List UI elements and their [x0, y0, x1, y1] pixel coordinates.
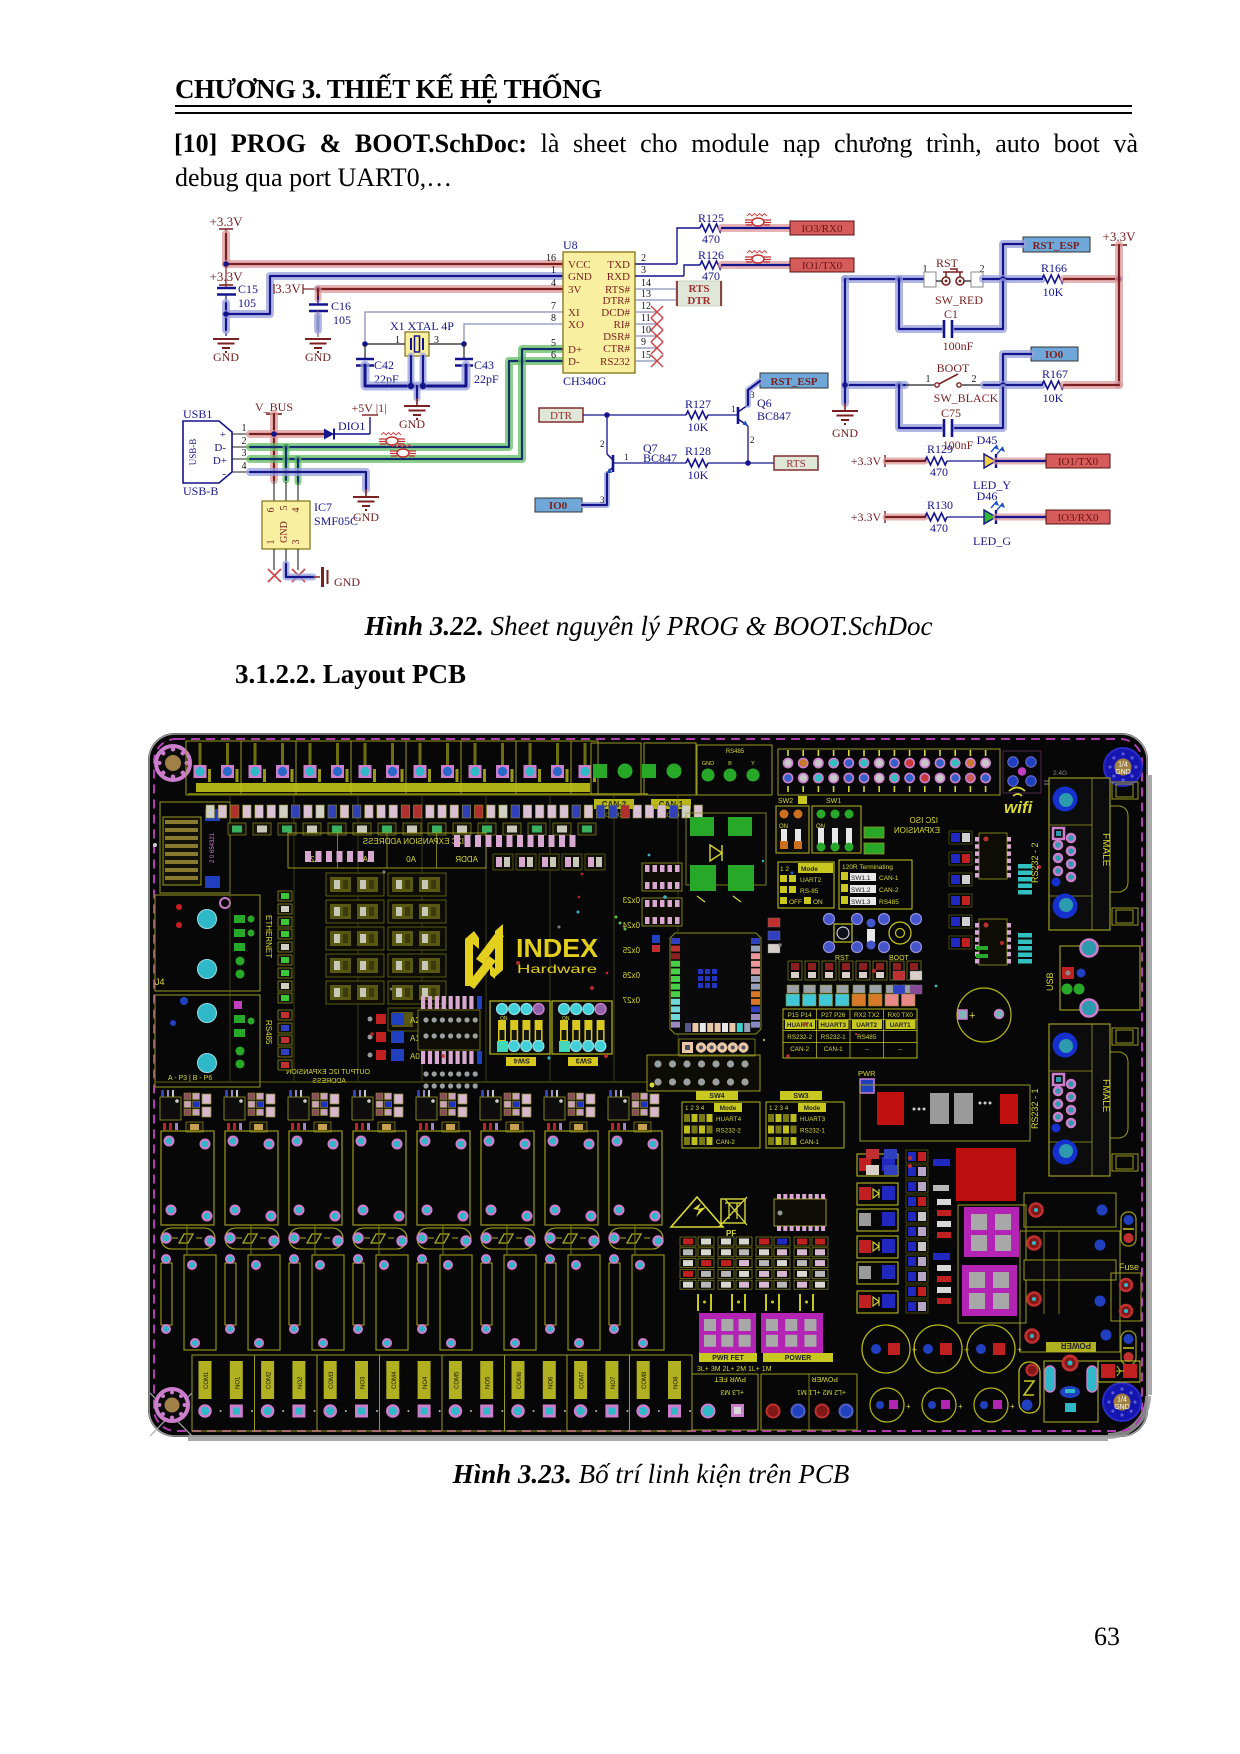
svg-text:RS485: RS485 — [726, 749, 745, 755]
svg-text:RS232 - 2: RS232 - 2 — [1030, 842, 1040, 883]
svg-text:USB-B: USB-B — [183, 484, 218, 498]
ground (switch rail) — [832, 403, 858, 440]
svg-text:LED_G: LED_G — [973, 534, 1011, 548]
no-ERC X (IC7 pin 3) — [292, 569, 305, 582]
svg-text:RTS: RTS — [786, 458, 806, 470]
wire LED to tag IO1/TX0 — [996, 458, 1046, 465]
wire VCC net vertical from +3.3V — [222, 234, 230, 264]
svg-text:7: 7 — [551, 301, 556, 312]
svg-text:TXD: TXD — [607, 259, 630, 271]
node crystal-left junction — [362, 341, 368, 347]
wire +3.3V to R130 — [886, 514, 925, 521]
svg-text:4: 4 — [242, 461, 247, 472]
svg-text:D+: D+ — [568, 344, 582, 356]
svg-text:GND: GND — [832, 426, 858, 440]
svg-text:RX2 TX2: RX2 TX2 — [854, 1012, 880, 1019]
svg-text:1 2: 1 2 — [780, 866, 789, 873]
svg-text:SW1.1: SW1.1 — [851, 875, 871, 882]
svg-text:NO1: NO1 — [235, 1376, 241, 1389]
svg-text:INDEX: INDEX — [516, 933, 599, 963]
svg-text:NO6: NO6 — [548, 1376, 554, 1389]
svg-text:Mode: Mode — [804, 1105, 821, 1112]
power port +3.3V (top left) — [210, 214, 244, 235]
svg-text:UART1: UART1 — [890, 1022, 911, 1029]
ground (crystal) — [399, 398, 430, 431]
svg-text:A0: A0 — [410, 1052, 420, 1061]
wire IC7 GND pin to ground bar — [286, 564, 313, 577]
svg-text:Mode: Mode — [801, 866, 818, 873]
svg-text:+: + — [220, 429, 226, 441]
svg-text:HUART3: HUART3 — [820, 1022, 846, 1029]
svg-text:P27 P26: P27 P26 — [821, 1012, 846, 1019]
svg-text:2: 2 — [641, 253, 646, 264]
wire DTR to R127 — [583, 414, 686, 416]
wire switches ground rail — [841, 279, 849, 403]
svg-text:1: 1 — [926, 374, 931, 385]
svg-text:1/4: 1/4 — [1118, 762, 1128, 769]
svg-text:FMALE: FMALE — [1100, 833, 1111, 867]
node crystal-right junction — [461, 341, 467, 347]
wire C15 to ground / GND net — [225, 294, 227, 336]
svg-text:UART2: UART2 — [856, 1022, 877, 1029]
node crystal bus junctions — [408, 383, 426, 389]
svg-text:RXD: RXD — [607, 271, 630, 283]
ground bar (IC7) — [313, 567, 360, 589]
svg-text:RST_ESP: RST_ESP — [1032, 240, 1079, 252]
svg-text:J4: J4 — [155, 977, 165, 987]
svg-text:CAN-2: CAN-2 — [879, 887, 899, 894]
svg-text:CH340G: CH340G — [563, 374, 607, 388]
svg-text:SW4: SW4 — [513, 1057, 530, 1066]
svg-text:FMALE: FMALE — [1100, 1079, 1111, 1113]
pushbutton RST SW_RED — [923, 256, 985, 307]
svg-text:COM4: COM4 — [392, 1371, 398, 1389]
power port +3.3V (D46 row) — [851, 510, 885, 524]
IC7 bottom pin wires — [274, 549, 298, 571]
svg-text:COM6: COM6 — [517, 1371, 523, 1389]
svg-text:5: 5 — [551, 338, 556, 349]
svg-text:HUART3: HUART3 — [800, 1116, 826, 1123]
svg-text:13: 13 — [641, 289, 651, 300]
svg-text:C42: C42 — [374, 358, 394, 372]
node BOOT/R167 junction — [1000, 382, 1006, 388]
port RST_ESP (top right) — [1023, 237, 1090, 252]
svg-text:1: 1 — [266, 540, 277, 545]
svg-text:3.3V: 3.3V — [275, 281, 301, 296]
svg-text:DIO1: DIO1 — [338, 419, 365, 433]
TVS array IC7 SMF05C — [262, 500, 358, 549]
wire Q6 collector to RST_ESP — [748, 381, 760, 405]
svg-text:3: 3 — [600, 495, 605, 505]
port IO1/TX0 — [1046, 454, 1110, 468]
svg-text:RST: RST — [936, 256, 959, 270]
wire DIO1 to +5V — [334, 417, 370, 434]
svg-text:RS232: RS232 — [600, 356, 630, 368]
LED D46 LED_G — [947, 489, 1011, 548]
wire R125 to tag IO3/RX0 — [722, 224, 790, 232]
svg-text:1 2 3 4: 1 2 3 4 — [685, 1105, 705, 1112]
capacitor C42 22pF — [356, 344, 399, 386]
svg-text:DTR#: DTR# — [603, 295, 631, 307]
svg-text:R166: R166 — [1041, 261, 1067, 275]
svg-text:-: - — [222, 468, 226, 480]
svg-text:VCC: VCC — [568, 259, 591, 271]
svg-text:COM3: COM3 — [329, 1371, 335, 1389]
wire stubs to IC7 — [274, 480, 298, 501]
svg-text:I2C EXPANSION ADDRESS: I2C EXPANSION ADDRESS — [363, 837, 464, 846]
ground (C15) — [213, 339, 239, 364]
wire XO net U8 pin 8 to crystal — [464, 324, 563, 344]
svg-text:0x26: 0x26 — [622, 971, 640, 980]
svg-text:0x27: 0x27 — [622, 996, 640, 1005]
svg-text:GND: GND — [1115, 769, 1131, 776]
svg-text:D45: D45 — [977, 433, 998, 447]
power port V_BUS — [255, 400, 293, 414]
wire RXD to R126 — [635, 265, 700, 276]
svg-text:1: 1 — [731, 404, 736, 414]
svg-text:P15 P14: P15 P14 — [788, 1012, 813, 1019]
node Q6 emitter / R128 junction — [745, 460, 751, 466]
node C1 branch junction (left) — [896, 276, 902, 282]
wire RST row left (to GND rail) — [845, 275, 925, 283]
svg-text:IC7: IC7 — [314, 500, 332, 514]
wire GND net: C15 to U8 pin 1 — [226, 276, 563, 314]
svg-text:NO8: NO8 — [674, 1376, 680, 1389]
wire V_BUS vertical — [270, 414, 278, 480]
svg-text:SW_BLACK: SW_BLACK — [934, 391, 999, 405]
svg-text:D+: D+ — [213, 455, 227, 467]
wire D+ net USB pin3 to U8 pin 5 — [250, 349, 563, 459]
resistor R125 470 — [698, 211, 724, 246]
svg-text:14: 14 — [641, 278, 651, 289]
svg-text:CAN-1: CAN-1 — [824, 1046, 843, 1053]
svg-text:IO3/RX0: IO3/RX0 — [802, 223, 843, 235]
svg-text:+: + — [906, 1402, 911, 1411]
svg-text:C75: C75 — [941, 406, 961, 420]
wire BOOT switch to R167 node — [984, 381, 1042, 389]
svg-text:Hardware: Hardware — [517, 962, 597, 976]
resistor R167 10K — [1042, 367, 1068, 405]
capacitor C43 22pF — [455, 344, 499, 386]
crystal X1 XTAL-4P — [390, 319, 454, 356]
ferrite no-ERC (R125 row) — [745, 214, 771, 227]
svg-text:4: 4 — [551, 278, 556, 289]
svg-text:USB: USB — [1045, 972, 1055, 991]
svg-text:C15: C15 — [238, 282, 258, 296]
svg-text:ADDR: ADDR — [455, 855, 478, 864]
svg-text:10K: 10K — [1043, 391, 1064, 405]
svg-text:10: 10 — [641, 325, 651, 336]
svg-text:EXPANSION: EXPANSION — [894, 826, 940, 835]
svg-text:105: 105 — [238, 296, 256, 310]
svg-text:SW1.3: SW1.3 — [851, 899, 871, 906]
svg-text:3: 3 — [242, 448, 247, 459]
svg-text:CAN-1: CAN-1 — [879, 875, 899, 882]
svg-text:0x23: 0x23 — [622, 896, 640, 905]
svg-text:IO1/TX0: IO1/TX0 — [1058, 456, 1099, 468]
power port 3.3V (at C16) — [274, 281, 318, 296]
resistor R130 470 — [925, 498, 953, 535]
transistor Q7 BC847 — [600, 415, 677, 505]
wire C16 to ground — [317, 311, 319, 337]
ferrite no-ERC (R126 row) — [745, 251, 771, 264]
svg-text:RI#: RI# — [614, 319, 631, 331]
svg-text:10K: 10K — [688, 468, 709, 482]
ferrite no-ERC marks (USB data lines) — [379, 433, 416, 458]
LED D45 LED_Y — [947, 433, 1011, 492]
svg-text:SW1: SW1 — [826, 798, 841, 805]
wire RST_ESP to RST switch — [1003, 244, 1023, 279]
svg-text:RS232-1: RS232-1 — [800, 1128, 825, 1135]
svg-text:IO1/TX0: IO1/TX0 — [802, 260, 843, 272]
svg-text:3: 3 — [291, 540, 302, 545]
wire IO0 to BOOT switch — [1003, 354, 1031, 385]
node C75 branch junction — [896, 382, 902, 388]
svg-text:SW1.2: SW1.2 — [851, 887, 871, 894]
svg-text:D-: D- — [568, 356, 580, 368]
svg-text:RST_ESP: RST_ESP — [770, 376, 817, 388]
svg-text:I2C ISO: I2C ISO — [910, 816, 938, 825]
svg-text:+5V |1|: +5V |1| — [351, 401, 386, 415]
node RST/R166 junction — [1000, 276, 1006, 282]
svg-text:R125: R125 — [698, 211, 724, 225]
svg-text:+L3 M3: +L3 M3 — [720, 1388, 744, 1395]
resistor R126 470 — [698, 248, 724, 283]
wire +3.3V to R129 — [886, 458, 925, 465]
port DTR (to Q6 base) — [539, 408, 583, 422]
svg-text:2.4G: 2.4G — [1053, 770, 1067, 777]
svg-text:SW3: SW3 — [793, 1093, 808, 1100]
svg-text:6: 6 — [551, 350, 556, 361]
svg-text:6: 6 — [266, 508, 277, 513]
svg-text:wifi: wifi — [1004, 798, 1034, 817]
svg-text:10K: 10K — [688, 420, 709, 434]
svg-text:C1: C1 — [944, 307, 958, 321]
svg-text:GND: GND — [568, 271, 592, 283]
svg-text:GND: GND — [702, 761, 714, 767]
U8 unused right pin stubs with no-ERC X — [635, 306, 663, 367]
svg-text:U8: U8 — [563, 238, 578, 252]
wire R128 to RTS node — [708, 462, 748, 464]
svg-text:R167: R167 — [1042, 367, 1068, 381]
svg-text:Fuse: Fuse — [1119, 1262, 1139, 1272]
wire TXD to R125 — [635, 228, 700, 264]
svg-text:+: + — [1017, 1345, 1022, 1355]
svg-text:CAN-2: CAN-2 — [716, 1139, 735, 1146]
svg-text:HUART4: HUART4 — [716, 1116, 742, 1123]
svg-text:NO2: NO2 — [298, 1376, 304, 1389]
svg-text:8: 8 — [551, 313, 556, 324]
svg-text:RS232 - 1: RS232 - 1 — [1030, 1088, 1040, 1129]
connector USB1 USB-B — [183, 407, 250, 498]
svg-text:XI: XI — [568, 307, 580, 319]
svg-text:D46: D46 — [977, 489, 998, 503]
svg-text:470: 470 — [930, 465, 948, 479]
svg-text:2: 2 — [750, 435, 755, 445]
svg-text:NO5: NO5 — [486, 1376, 492, 1389]
svg-text:100nF: 100nF — [943, 339, 974, 353]
svg-text:1: 1 — [624, 452, 629, 462]
svg-text:DTR: DTR — [550, 410, 573, 422]
svg-text:RS232-2: RS232-2 — [787, 1034, 812, 1041]
svg-text:HUART4: HUART4 — [787, 1022, 813, 1029]
svg-text:12: 12 — [641, 301, 651, 312]
svg-text:GND: GND — [1114, 1404, 1130, 1411]
svg-text:CTR#: CTR# — [603, 343, 630, 355]
svg-text:USB-B: USB-B — [188, 439, 198, 466]
svg-text:PWR: PWR — [858, 1069, 876, 1078]
capacitor C16 105 — [309, 296, 351, 327]
svg-text:SW2: SW2 — [778, 798, 793, 805]
svg-text:+3.3V: +3.3V — [851, 510, 882, 524]
svg-text:GND: GND — [213, 350, 239, 364]
svg-text:RS232-2: RS232-2 — [716, 1128, 741, 1135]
svg-text:NO4: NO4 — [423, 1376, 429, 1389]
svg-text:IO0: IO0 — [1045, 349, 1064, 361]
power port +5V — [351, 401, 386, 415]
svg-text:POWER: POWER — [812, 1375, 838, 1382]
svg-text:COM5: COM5 — [454, 1371, 460, 1389]
wire R166 to +3.3V rail — [1064, 275, 1119, 283]
power port +3.3V (D45 row) — [851, 454, 885, 468]
svg-text:ETHERNET: ETHERNET — [264, 915, 273, 958]
svg-text:IO3/RX0: IO3/RX0 — [1058, 512, 1099, 524]
svg-text:BC847: BC847 — [757, 409, 791, 423]
resistor R129 470 — [925, 442, 953, 479]
capacitor C15 105 — [217, 282, 258, 310]
svg-text:+L2 M2 +L1 M1: +L2 M2 +L1 M1 — [797, 1388, 846, 1395]
wire USB pin4 to ground — [250, 472, 366, 489]
svg-text:R130: R130 — [927, 498, 953, 512]
svg-text:DCD#: DCD# — [601, 307, 630, 319]
svg-text:POWER: POWER — [785, 1355, 811, 1362]
svg-text:B: B — [728, 761, 732, 767]
capacitor C1 100nF — [899, 279, 1003, 353]
port IO3/RX0 (top) — [790, 221, 854, 235]
svg-text:IO0: IO0 — [549, 500, 568, 512]
svg-text:COM8: COM8 — [642, 1371, 648, 1389]
svg-text:NO7: NO7 — [611, 1376, 617, 1389]
svg-text:SW3: SW3 — [576, 1057, 592, 1066]
switch BOOT SW_BLACK — [905, 361, 999, 405]
power port +3.3V (right rail) — [1103, 229, 1137, 245]
svg-text:R128: R128 — [685, 444, 711, 458]
port RST_ESP (Q6 collector) — [760, 373, 828, 388]
svg-text:RS-85: RS-85 — [800, 888, 819, 895]
port IO3/RX0 — [1046, 510, 1110, 524]
svg-text:+: + — [958, 1402, 963, 1411]
svg-text:3: 3 — [641, 265, 646, 276]
node D+ junction — [295, 456, 301, 482]
svg-text:2: 2 — [600, 439, 605, 449]
port IO1/TX0 (top) — [790, 258, 854, 272]
svg-text:+: + — [1010, 1402, 1015, 1411]
svg-text:1: 1 — [242, 423, 247, 434]
svg-text:Mode: Mode — [720, 1105, 737, 1112]
node DTR/Q7-collector junction — [604, 412, 610, 418]
svg-text:1 2 3 4: 1 2 3 4 — [769, 1105, 789, 1112]
resistor R127 10K — [685, 397, 711, 434]
svg-text:COM2: COM2 — [267, 1371, 273, 1389]
svg-text:2: 2 — [242, 436, 247, 447]
svg-text:R129: R129 — [927, 442, 953, 456]
svg-text:120R Terminating: 120R Terminating — [842, 864, 893, 871]
svg-text:RS485: RS485 — [879, 899, 899, 906]
wire RST switch to R166 node — [983, 275, 1042, 283]
port RTS (green) — [748, 456, 818, 470]
wire crystal node right — [429, 343, 464, 345]
svg-text:9: 9 — [641, 337, 646, 348]
resistor R166 10K — [1041, 261, 1067, 299]
transistor Q6 BC847 — [738, 390, 791, 445]
svg-text:470: 470 — [930, 521, 948, 535]
wire Q6 emitter to RTS node — [747, 426, 749, 463]
node V_BUS junction — [271, 431, 277, 437]
ground (C16) — [305, 339, 331, 364]
svg-text:SW_RED: SW_RED — [935, 293, 983, 307]
svg-text:PWR FET: PWR FET — [712, 1355, 744, 1362]
svg-text:BOOT: BOOT — [937, 361, 970, 375]
svg-text:CAN-1: CAN-1 — [800, 1139, 819, 1146]
svg-text:UART2: UART2 — [800, 877, 822, 884]
node ground rail / BOOT junction — [842, 382, 848, 388]
svg-text:22pF: 22pF — [474, 372, 499, 386]
port RTS / DTR (to U8 pins 14,13) — [635, 281, 722, 307]
svg-text:COM1: COM1 — [204, 1371, 210, 1389]
wire crystal node left — [365, 343, 405, 345]
svg-text:A - P3 | B - P6: A - P3 | B - P6 — [168, 1075, 212, 1082]
svg-text:R126: R126 — [698, 248, 724, 262]
svg-text:C43: C43 — [474, 358, 494, 372]
capacitor C75 100nF — [899, 385, 1003, 452]
wire XI net U8 pin 7 to crystal — [365, 312, 563, 344]
svg-text:NO3: NO3 — [361, 1376, 367, 1389]
wire R127 to Q6 base — [708, 404, 738, 415]
svg-text:RS485: RS485 — [857, 1034, 877, 1041]
svg-text:1: 1 — [551, 265, 556, 276]
svg-text:GND: GND — [334, 575, 360, 589]
svg-text:--: -- — [898, 1046, 902, 1053]
svg-text:OUTPUT I2C EXPANSION: OUTPUT I2C EXPANSION — [286, 1069, 370, 1076]
svg-text:X1 XTAL 4P: X1 XTAL 4P — [390, 319, 454, 333]
no-ERC X (IC7 pin 1) — [268, 569, 281, 582]
wire D- net USB pin2 to U8 pin 6 — [250, 361, 563, 447]
resistor R128 10K — [685, 444, 711, 482]
svg-text:CAN-2: CAN-2 — [790, 1046, 809, 1053]
svg-text:ON: ON — [813, 899, 823, 906]
svg-text:+: + — [969, 1010, 975, 1022]
svg-text:470: 470 — [702, 269, 720, 283]
IC U8 CH340G — [546, 238, 651, 388]
svg-text:Y: Y — [751, 761, 755, 767]
wire USB pin1 to DIO1 — [250, 430, 324, 438]
svg-text:5: 5 — [279, 506, 290, 511]
svg-text:10K: 10K — [1043, 285, 1064, 299]
svg-text:3L+ 3M 2L+ 2M 1L+ 1M: 3L+ 3M 2L+ 2M 1L+ 1M — [697, 1366, 772, 1373]
port IO0 (to Q7) — [535, 498, 582, 512]
svg-text:2: 2 — [972, 374, 977, 385]
svg-text:--: -- — [865, 1046, 869, 1053]
svg-text:COM7: COM7 — [580, 1371, 586, 1389]
wire IO0 to Q7 emitter — [582, 474, 607, 505]
node VCC junction — [223, 261, 229, 267]
svg-text:3V: 3V — [568, 284, 582, 296]
wire +3.3V rail vertical — [1115, 245, 1123, 385]
svg-text:+3.3V: +3.3V — [851, 454, 882, 468]
svg-text:A0: A0 — [406, 855, 416, 864]
svg-text:OFF: OFF — [789, 899, 802, 906]
wire 3V net to U8 pin 4 — [318, 285, 563, 293]
